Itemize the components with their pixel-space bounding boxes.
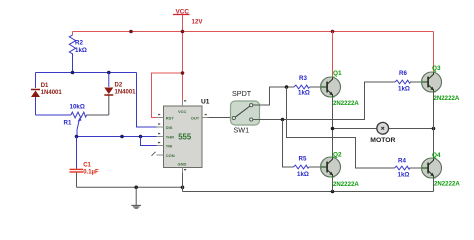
resistor R3 1k: [294, 75, 310, 97]
svg-text:Q4: Q4: [432, 152, 441, 159]
svg-text:1kΩ: 1kΩ: [297, 171, 309, 178]
svg-text:R1: R1: [64, 119, 72, 126]
svg-text:1kΩ: 1kΩ: [398, 171, 410, 178]
wire R4 to Q4 base: [410, 167, 422, 169]
wire TRI branch: [141, 137, 157, 146]
svg-text:1N4001: 1N4001: [115, 89, 137, 95]
wire D1 leads: [35, 73, 37, 116]
svg-text:Q2: Q2: [333, 151, 342, 158]
wire C1 top lead: [76, 137, 78, 169]
svg-text:R4: R4: [398, 157, 406, 164]
node junction loop/R2: [71, 71, 75, 75]
svg-text:1kΩ: 1kΩ: [298, 90, 310, 97]
svg-text:VCC: VCC: [176, 8, 190, 15]
svg-text:12V: 12V: [192, 18, 204, 25]
svg-text:SW1: SW1: [234, 126, 250, 135]
wire throw2 down to R5: [283, 120, 294, 168]
svg-text:VCC: VCC: [178, 109, 187, 114]
svg-text:DIS: DIS: [166, 125, 173, 130]
wire R5 to Q2 base: [309, 166, 321, 168]
svg-text:Q3: Q3: [432, 65, 441, 72]
svg-text:2N2222A: 2N2222A: [434, 180, 460, 187]
wire R2 bottom lead: [72, 57, 74, 73]
transistor Q4 2N2222A: [422, 152, 461, 187]
wire R6 to Q3 base: [410, 81, 422, 83]
wire Q1 collector from bus: [332, 32, 334, 78]
wire Q3 emitter / Q4 collector column: [433, 92, 435, 159]
svg-text:2N2222A: 2N2222A: [434, 95, 460, 102]
svg-text:C1: C1: [83, 163, 91, 169]
node junction motor right: [432, 127, 436, 131]
node junction throw2/R5 branch: [281, 118, 285, 122]
svg-text:1kΩ: 1kΩ: [75, 47, 87, 54]
node junction gnd/555: [181, 186, 185, 190]
svg-text:U1: U1: [201, 98, 210, 105]
ground symbol: [131, 187, 141, 208]
svg-text:OUT: OUT: [191, 115, 200, 120]
IC U1 555 timer body: [164, 106, 203, 168]
diode D2 1N4001: [104, 83, 136, 96]
wire throw1 to R3/Q1 base row: [260, 87, 295, 105]
svg-text:MOTOR: MOTOR: [370, 137, 395, 144]
wire R3 to Q1 base: [310, 86, 321, 88]
resistor R5 1k: [294, 155, 310, 177]
wire wiper down to THR node: [76, 130, 78, 137]
svg-text:2N2222A: 2N2222A: [333, 100, 359, 107]
svg-text:RST: RST: [166, 115, 175, 120]
svg-text:1kΩ: 1kΩ: [398, 85, 410, 92]
motor M1: [370, 122, 395, 143]
wire motor line: [333, 128, 434, 130]
node junction bus/VCC stem: [181, 30, 185, 34]
svg-text:R2: R2: [75, 40, 83, 47]
node junction bus/Q1 collector: [331, 30, 335, 34]
U1 pin stubs: [157, 100, 209, 173]
svg-text:1N4001: 1N4001: [41, 90, 63, 96]
U1 pin number ticks: [158, 100, 207, 170]
wire VCC stem: [182, 15, 184, 101]
resistor R2 1k: [69, 35, 87, 57]
svg-text:R3: R3: [299, 75, 307, 82]
transistor Q1 2N2222A: [321, 70, 360, 107]
svg-text:TRI: TRI: [166, 144, 172, 149]
wire diode loop top: [36, 72, 137, 74]
node junction loop/D2: [107, 71, 111, 75]
node junction gnd/Q2 emitter: [331, 190, 335, 194]
svg-text:D1: D1: [41, 83, 49, 89]
wire 555 GND pin to bus: [182, 173, 184, 192]
svg-text:THR: THR: [166, 134, 174, 139]
wire THR line: [77, 136, 157, 138]
node junction motor left: [331, 127, 335, 131]
svg-text:CON: CON: [166, 153, 175, 158]
node junction THR/TRI branch: [139, 135, 143, 139]
svg-text:D2: D2: [115, 83, 123, 89]
svg-text:R6: R6: [399, 70, 407, 77]
wire loop right side to DIS pin: [137, 73, 157, 128]
wire Q4 emitter to gnd corner: [433, 177, 435, 192]
resistor R4 1k: [395, 157, 411, 178]
wire Q1 emitter / Q2 collector column: [332, 97, 334, 158]
potentiometer R1 10k: [64, 103, 87, 130]
svg-text:0.1µF: 0.1µF: [83, 169, 99, 175]
svg-text:10kΩ: 10kΩ: [70, 103, 85, 110]
svg-text:GND: GND: [178, 161, 187, 166]
wire D2 leads: [108, 73, 110, 88]
svg-text:555: 555: [178, 133, 192, 142]
wire ground bus right segment: [183, 191, 434, 193]
transistor Q2 2N2222A: [321, 151, 360, 188]
wire top VCC bus: [73, 31, 434, 33]
capacitor C1 0.1uF: [70, 163, 99, 176]
wire R2 top lead from bus: [72, 32, 74, 36]
svg-text:Q1: Q1: [333, 70, 342, 77]
switch SW1 SPDT: [231, 89, 260, 134]
node junction THR x122: [120, 135, 124, 139]
wire OUT to switch: [209, 117, 232, 119]
wire ground bus left segment: [77, 186, 183, 188]
wire throw1 crossover to R4: [287, 87, 395, 168]
wire C1 bottom lead: [76, 173, 78, 188]
transistor Q3 2N2222A: [422, 65, 460, 102]
node junction wiper/C1/THR: [75, 135, 79, 139]
resistor R6 1k: [395, 70, 411, 92]
svg-text:2N2222A: 2N2222A: [333, 181, 359, 188]
wire Q3 collector from bus: [433, 32, 435, 73]
CON pin no-connect marker: [152, 152, 156, 156]
node junction gnd/symbol: [134, 186, 138, 190]
node junction on bus x131: [129, 30, 133, 34]
svg-text:SPDT: SPDT: [232, 89, 252, 98]
wire RST branch (VCC to 555 RST): [152, 71, 185, 117]
power VCC symbol: [173, 8, 203, 25]
diode D1 1N4001: [31, 83, 62, 97]
wire throw2 line to R6 riser: [260, 82, 396, 120]
svg-text:R5: R5: [299, 155, 307, 162]
wire loop bottom: [36, 114, 72, 116]
node junction throw1 branch: [285, 85, 289, 89]
wire Q2 emitter to gnd: [332, 177, 334, 192]
